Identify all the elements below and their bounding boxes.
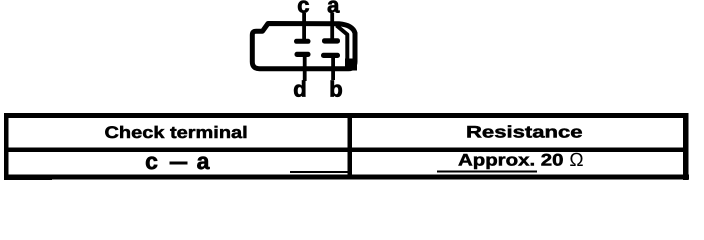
table outer border top xyxy=(4,113,689,118)
wire from label a into housing xyxy=(330,13,334,40)
svg-text:Check terminal: Check terminal xyxy=(105,123,248,142)
terminal pad c xyxy=(294,39,311,44)
scan artifact line under Approx xyxy=(437,170,537,172)
connector inner right wall xyxy=(337,26,348,67)
svg-text:Ω: Ω xyxy=(569,150,583,171)
table column divider xyxy=(347,114,352,180)
row cell dash between c and a xyxy=(169,162,187,165)
svg-text:b: b xyxy=(329,77,342,102)
svg-text:Resistance: Resistance xyxy=(466,122,583,141)
scan artifact bottom-left thick edge xyxy=(4,177,52,180)
wire from pad b down to label b xyxy=(331,56,335,80)
scan artifact line left column bottom xyxy=(290,171,352,173)
wire from pad d down to label d xyxy=(303,55,307,81)
connector bottom-right corner fill xyxy=(345,59,357,71)
terminal pad a xyxy=(322,38,340,43)
table outer border left xyxy=(4,114,9,180)
table outer border bottom xyxy=(4,175,689,180)
terminal pad b xyxy=(321,53,340,58)
svg-text:c: c xyxy=(145,148,158,174)
svg-text:Approx. 20: Approx. 20 xyxy=(458,150,564,169)
wire from label c into housing xyxy=(302,13,306,41)
connector housing outline xyxy=(252,24,355,69)
table row divider xyxy=(4,148,689,152)
svg-text:a: a xyxy=(197,148,210,174)
terminal pad d xyxy=(295,52,311,57)
table outer border right xyxy=(683,114,689,180)
